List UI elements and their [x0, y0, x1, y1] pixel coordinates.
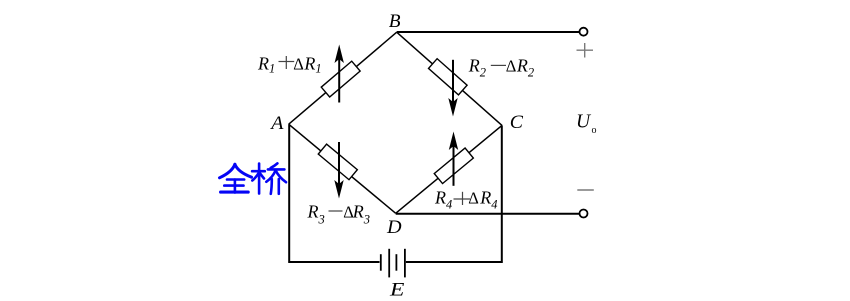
resistor R3 [318, 142, 357, 199]
label R1 value [257, 54, 322, 76]
plus sign output [577, 43, 594, 58]
svg-text:A: A [269, 114, 284, 134]
svg-text:B: B [389, 12, 401, 32]
label R4 value [434, 188, 498, 212]
label 全桥 (full bridge) drawn as strokes [220, 163, 287, 193]
svg-text:R2: R2 [468, 56, 486, 80]
wire D to minus terminal [396, 213, 580, 215]
svg-text:R2: R2 [516, 56, 534, 80]
wire B-C [397, 32, 502, 125]
minus sign output [577, 189, 594, 191]
wire B to plus terminal [397, 31, 580, 33]
svg-text:Δ: Δ [506, 57, 517, 76]
resistor R2 [429, 59, 468, 117]
svg-text:R1: R1 [257, 54, 275, 76]
svg-text:R4: R4 [434, 188, 452, 212]
terminal minus [580, 210, 588, 218]
wire A-B [289, 32, 397, 124]
wire C down [501, 125, 503, 261]
wire A down [288, 124, 290, 261]
wire bottom left to battery [288, 261, 379, 263]
svg-text:R3: R3 [307, 202, 325, 227]
battery E [381, 249, 405, 278]
svg-text:D: D [386, 218, 402, 238]
wire bottom right to battery [406, 261, 503, 263]
terminal plus [580, 28, 588, 36]
svg-text:R3: R3 [352, 202, 370, 227]
svg-text:C: C [510, 113, 524, 133]
wire D-C [396, 125, 502, 213]
svg-text:E: E [389, 281, 405, 301]
svg-text:o: o [592, 125, 597, 136]
svg-text:U: U [576, 112, 592, 133]
svg-text:Δ: Δ [468, 189, 479, 208]
wire A-D [289, 124, 396, 213]
label R3 value [307, 202, 371, 227]
svg-text:R4: R4 [479, 188, 497, 212]
resistor R4 [434, 132, 473, 186]
svg-text:R1: R1 [303, 54, 321, 76]
svg-text:Δ: Δ [293, 55, 304, 74]
resistor R1 [321, 45, 360, 103]
label R2 value [468, 56, 534, 80]
